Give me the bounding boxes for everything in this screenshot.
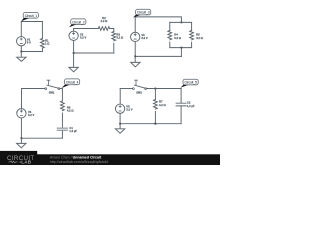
- voltage source V5: [115, 104, 124, 113]
- resistor R7: [154, 100, 158, 110]
- bottom wire C1: [21, 51, 42, 53]
- svg-text:▪LAB: ▪LAB: [19, 160, 31, 165]
- label R1 value: [45, 39, 50, 46]
- label Circuit_4: [61, 79, 79, 88]
- wire R7 bottom: [154, 112, 156, 124]
- svg-text:Circuit_4: Circuit_4: [66, 80, 79, 84]
- svg-text:4.2 Ω: 4.2 Ω: [67, 108, 74, 112]
- junction R7 top: [155, 88, 157, 90]
- svg-text:3.2 V: 3.2 V: [141, 36, 147, 40]
- label C2 value: [187, 101, 195, 108]
- wire below V3: [134, 42, 136, 57]
- wire C1cap bottom: [61, 131, 63, 138]
- wire after SW2: [147, 88, 182, 90]
- wire R5 bottom: [191, 42, 193, 47]
- label R5 value: [196, 33, 203, 40]
- wire box bottom down: [180, 48, 182, 57]
- junction V4 bottom: [21, 137, 23, 139]
- wire left C5: [119, 89, 121, 105]
- label R3 value: [117, 32, 124, 39]
- label R7 value: [159, 100, 166, 107]
- svg-text:1.2 µF: 1.2 µF: [187, 104, 195, 108]
- svg-text:SW1: SW1: [49, 91, 55, 95]
- wire after SW1: [60, 88, 63, 90]
- junction V5 bottom: [119, 123, 121, 125]
- label Circuit_1: [21, 12, 38, 21]
- box top wire: [170, 21, 192, 23]
- resistor R3: [112, 32, 116, 41]
- label V3 value: [141, 33, 147, 40]
- wire below V2: [73, 41, 75, 54]
- svg-text:3.2 Ω: 3.2 Ω: [117, 35, 124, 39]
- capacitor C2: [176, 103, 186, 106]
- resistor R6: [61, 101, 65, 111]
- svg-text:Circuit_5: Circuit_5: [185, 81, 198, 85]
- resistor R2 (horizontal): [98, 27, 109, 31]
- switch SW2: [133, 80, 147, 89]
- wire top C5: [120, 88, 132, 90]
- svg-text:4.2 Ω: 4.2 Ω: [159, 103, 166, 107]
- wire right C1 to R1: [41, 22, 43, 39]
- svg-text:3.2 Ω: 3.2 Ω: [196, 36, 203, 40]
- wire R4 bottom: [169, 42, 171, 47]
- svg-text:http://circuitlab.com/c/5nuq4h: http://circuitlab.com/c/5nuq4hy8ukd4: [50, 160, 108, 164]
- junction box top: [181, 22, 183, 24]
- wire below V1: [20, 46, 22, 52]
- label C1 value: [69, 126, 77, 133]
- svg-text:SW2: SW2: [136, 91, 142, 95]
- wire top C1: [21, 21, 42, 23]
- wire R7 top: [154, 89, 156, 100]
- ground C1: [17, 52, 26, 62]
- wire R6 to C1cap: [61, 113, 63, 128]
- wire to R5: [191, 22, 193, 30]
- logo squarewave: [8, 161, 17, 163]
- label V4 value: [28, 110, 34, 117]
- ground C4: [17, 138, 26, 148]
- switch SW1: [45, 80, 60, 89]
- capacitor C1: [57, 128, 67, 130]
- junction R7 bottom: [155, 123, 157, 125]
- wire top C2 from V2: [74, 29, 99, 32]
- wire top C3 from V3: [135, 17, 181, 32]
- label R4 value: [174, 33, 181, 40]
- label V1 value: [27, 37, 31, 44]
- svg-text:3.2 V: 3.2 V: [126, 108, 132, 112]
- voltage source V4: [17, 109, 26, 118]
- bottom wire C4: [21, 137, 62, 139]
- ground C2: [69, 53, 78, 72]
- logo tab: [0, 151, 37, 165]
- junction V1 bottom: [20, 51, 22, 53]
- svg-text:5 V: 5 V: [27, 40, 31, 44]
- label R2 value: [101, 16, 108, 23]
- svg-text:Circuit_1: Circuit_1: [25, 14, 38, 18]
- label Circuit_5: [180, 79, 198, 88]
- wire R6 top: [61, 89, 63, 102]
- junction V3 bottom: [134, 56, 136, 58]
- wire R2 right to corner: [110, 29, 114, 32]
- wire left C4: [21, 89, 23, 109]
- junction box bottom: [181, 47, 183, 49]
- label Circuit_2: [69, 19, 86, 27]
- box bottom wire: [170, 47, 192, 49]
- bottom wire C3: [135, 55, 181, 57]
- voltage source V1: [17, 37, 26, 46]
- bottom wire C2: [74, 52, 114, 54]
- footer bar: [0, 154, 220, 165]
- wire top C4: [22, 88, 45, 90]
- label V2 value: [80, 32, 86, 39]
- wire C2cap bottom: [180, 106, 182, 123]
- svg-text:3.2 Ω: 3.2 Ω: [174, 36, 181, 40]
- voltage source V2: [69, 31, 78, 40]
- svg-text:Arwen Chen / Unnamed Circuit: Arwen Chen / Unnamed Circuit: [50, 155, 102, 159]
- wire left C1: [20, 22, 22, 37]
- resistor R1: [41, 38, 45, 48]
- wire R1 bottom: [41, 48, 43, 51]
- label Circuit_3: [133, 9, 151, 17]
- label V5 value: [126, 105, 132, 112]
- svg-text:Circuit_3: Circuit_3: [137, 11, 150, 15]
- junction V2 bottom: [73, 52, 75, 54]
- resistor R4: [168, 30, 172, 39]
- svg-text:2.2 Ω: 2.2 Ω: [101, 19, 108, 23]
- label R6 value: [67, 105, 74, 112]
- wire below V5: [119, 113, 121, 123]
- wire C2cap top: [180, 89, 182, 103]
- ground C5: [115, 124, 124, 134]
- resistor R5: [190, 30, 194, 39]
- svg-text:3.2 V: 3.2 V: [28, 113, 34, 117]
- bottom wire C5: [120, 123, 181, 125]
- svg-text:3.2 V: 3.2 V: [80, 36, 86, 40]
- svg-text:Circuit_2: Circuit_2: [72, 20, 85, 24]
- voltage source V3: [131, 32, 140, 41]
- wire R3 bottom: [113, 43, 115, 53]
- wire below V4: [20, 118, 22, 138]
- svg-text:1.2 µF: 1.2 µF: [69, 129, 77, 133]
- wire to R4: [169, 22, 171, 30]
- ground C3: [131, 56, 140, 67]
